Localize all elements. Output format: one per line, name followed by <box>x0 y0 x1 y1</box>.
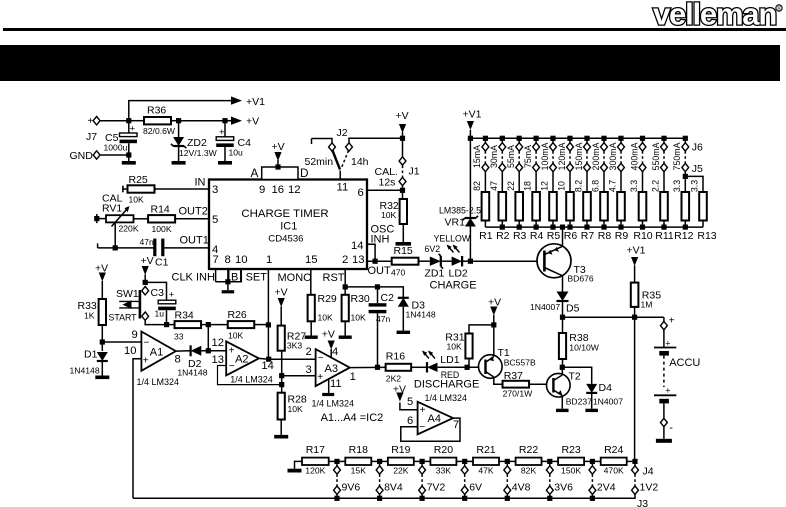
svg-text:D4: D4 <box>599 382 613 394</box>
wire J3 bus <box>133 494 635 498</box>
svg-text:9: 9 <box>132 329 138 341</box>
svg-text:+: + <box>130 124 136 135</box>
svg-text:CLK INH: CLK INH <box>172 272 215 284</box>
IC1 top notch box <box>262 167 298 180</box>
svg-text:47n: 47n <box>140 237 155 247</box>
connector J1 lower pin <box>399 177 406 185</box>
svg-text:R1: R1 <box>479 230 493 242</box>
svg-text:CHARGE TIMER: CHARGE TIMER <box>241 208 328 220</box>
svg-text:11: 11 <box>337 182 349 194</box>
svg-text:SW1: SW1 <box>116 288 139 300</box>
node RV1 left terminal <box>94 216 99 221</box>
wire OUT1 row left stub <box>98 247 116 249</box>
node D2/A2 junction <box>206 348 211 353</box>
resistor R34 <box>167 324 175 326</box>
battery end bar <box>663 427 665 439</box>
wire pin10 down <box>240 269 242 282</box>
resistor R6 column <box>567 136 572 141</box>
svg-text:7: 7 <box>213 254 219 266</box>
svg-text:MONO: MONO <box>278 272 313 284</box>
svg-text:150mA: 150mA <box>574 142 584 170</box>
svg-text:1/4 LM324: 1/4 LM324 <box>137 377 180 387</box>
wire to minus pin <box>663 403 665 418</box>
capacitor C1 <box>115 247 154 249</box>
node ZD2 top junction <box>176 118 181 123</box>
svg-text:R15: R15 <box>394 245 413 257</box>
svg-text:270/1W: 270/1W <box>503 389 534 399</box>
node T3 collector tap <box>560 225 565 230</box>
svg-text:13: 13 <box>352 254 365 266</box>
wire pin13 OUT row <box>367 260 392 262</box>
diode D1 <box>97 352 108 361</box>
svg-text:550mA: 550mA <box>651 142 661 170</box>
resistor R3 column <box>517 136 522 141</box>
svg-text:R20: R20 <box>434 444 453 456</box>
svg-text:−: − <box>318 353 324 364</box>
svg-text:CHARGE: CHARGE <box>430 280 477 292</box>
svg-text:5: 5 <box>407 396 413 408</box>
svg-text:+: + <box>88 116 94 127</box>
svg-text:J7: J7 <box>86 131 97 143</box>
svg-text:1/4 LM324: 1/4 LM324 <box>425 393 468 403</box>
svg-text:10K: 10K <box>228 331 244 341</box>
wire A3 pin11 to ground <box>328 378 330 393</box>
svg-text:IC1: IC1 <box>280 221 297 233</box>
svg-text:15K: 15K <box>351 466 367 476</box>
svg-text:1N4007: 1N4007 <box>530 302 560 312</box>
svg-text:R37: R37 <box>504 370 523 382</box>
wire pin15 down to R29 <box>310 269 312 295</box>
switch J2 dashed 14h <box>341 151 349 170</box>
svg-text:1K: 1K <box>84 311 95 321</box>
resistor R31 <box>465 334 472 359</box>
svg-text:D1: D1 <box>84 349 98 361</box>
node C2/A3 output junction <box>375 365 380 370</box>
wire pin3 row to A3 <box>282 375 316 377</box>
svg-text:2.2: 2.2 <box>651 180 661 192</box>
resistor R29 <box>308 295 315 322</box>
node C4 top junction <box>222 118 227 123</box>
wire D4 to ground <box>591 393 593 409</box>
svg-text:−: − <box>419 422 425 433</box>
svg-text:+: + <box>229 345 235 356</box>
svg-text:+V: +V <box>275 287 288 299</box>
svg-text:A2: A2 <box>235 354 248 366</box>
svg-text:R17: R17 <box>306 444 325 456</box>
svg-text:3.3: 3.3 <box>629 180 639 192</box>
header thin rule <box>3 28 786 31</box>
node wiper/OUT1 junction <box>113 245 118 250</box>
node pin6/R32 junction <box>400 188 405 193</box>
wire D2 to A2 pin12 <box>201 350 226 352</box>
wire R27 down across pin2 row <box>281 351 283 393</box>
wire ZD2 node to C4 node <box>179 120 225 122</box>
wire R31 to base node <box>468 359 470 368</box>
node C3/R34 junction <box>164 322 169 327</box>
svg-text:150K: 150K <box>561 466 581 476</box>
svg-text:R7: R7 <box>581 230 595 242</box>
wire D1 to ground <box>101 361 103 376</box>
svg-text:OUT2: OUT2 <box>179 206 208 218</box>
svg-text:−: − <box>144 337 150 348</box>
node D5/R38/battery junction <box>560 315 565 320</box>
resistor R2 column <box>500 136 505 141</box>
supply +V over J1 <box>402 132 404 138</box>
svg-text:1N4148: 1N4148 <box>406 310 436 320</box>
svg-text:82: 82 <box>472 181 482 191</box>
svg-text:+: + <box>665 386 670 396</box>
svg-text:12s: 12s <box>379 177 396 189</box>
wire R32 to ground <box>402 224 404 242</box>
wire A4 feedback loop <box>401 418 460 441</box>
svg-text:33K: 33K <box>436 466 452 476</box>
svg-text:J6: J6 <box>692 142 703 154</box>
svg-text:8: 8 <box>225 254 231 266</box>
resistor R36 <box>129 120 144 122</box>
resistor R20 <box>430 458 456 465</box>
wire junction to R31 <box>469 325 494 334</box>
resistor R16 <box>386 364 412 371</box>
svg-text:200mA: 200mA <box>591 142 601 170</box>
capacitor C3 <box>158 300 176 304</box>
svg-text:14h: 14h <box>351 156 369 168</box>
svg-text:R13: R13 <box>697 230 716 242</box>
svg-text:CD4536: CD4536 <box>268 233 303 244</box>
svg-text:OUT: OUT <box>368 265 392 277</box>
svg-text:1N4007: 1N4007 <box>593 397 623 407</box>
svg-text:22K: 22K <box>393 466 409 476</box>
header black banner <box>0 45 780 81</box>
svg-text:R30: R30 <box>351 293 370 305</box>
capacitor C5 <box>128 121 130 133</box>
svg-text:2: 2 <box>306 346 312 358</box>
connector J1 upper pin <box>402 138 404 157</box>
svg-text:BC557B: BC557B <box>504 358 536 368</box>
svg-text:2: 2 <box>342 254 348 266</box>
svg-text:ACCU: ACCU <box>669 357 700 369</box>
wire A2 output <box>259 357 269 360</box>
svg-text:10K: 10K <box>288 404 304 414</box>
op-amp A4 <box>418 402 454 435</box>
wire to C3 top <box>145 282 166 300</box>
node R33/D1/A1 junction <box>100 339 105 344</box>
resistor R12 column <box>683 136 688 141</box>
svg-text:C3: C3 <box>151 287 165 299</box>
resistor R38 <box>562 317 564 333</box>
svg-text:15mA: 15mA <box>472 145 482 168</box>
ground under D1 <box>95 376 109 380</box>
node +V/R31 junction <box>491 322 496 327</box>
wire R34 node down to D2 node <box>207 325 209 351</box>
resistor R33 <box>99 299 106 325</box>
wire R15 to ZD1 <box>419 260 430 262</box>
svg-text:R16: R16 <box>386 351 405 363</box>
svg-text:J4: J4 <box>643 466 654 478</box>
LED LD1 <box>427 363 438 372</box>
wire A1 pin10 feedback from J3 bus <box>133 359 141 499</box>
zener VR1 LM385-2.5 <box>469 138 471 218</box>
svg-text:YELLOW: YELLOW <box>434 234 471 244</box>
svg-text:A: A <box>251 166 259 180</box>
svg-text:3: 3 <box>212 184 218 196</box>
svg-text:4V8: 4V8 <box>512 482 531 494</box>
resistor R15 <box>392 258 419 265</box>
svg-text:9V6: 9V6 <box>342 482 361 494</box>
svg-text:R6: R6 <box>564 230 578 242</box>
supply arrow +V <box>231 117 242 125</box>
svg-text:B: B <box>231 272 238 284</box>
svg-text:12: 12 <box>288 184 301 196</box>
wire down right rail to J4 <box>634 317 636 461</box>
resistor R26 <box>228 321 255 328</box>
capacitor C2 <box>377 287 379 303</box>
tap 6V <box>462 459 467 464</box>
svg-text:R2: R2 <box>496 230 510 242</box>
wire A1 output to D2 <box>176 350 191 352</box>
ground left of R17 <box>295 461 303 468</box>
wire T2 emitter to ground <box>561 396 563 409</box>
svg-text:55mA: 55mA <box>506 145 516 168</box>
ground under R32 <box>396 242 412 246</box>
svg-text:3.3: 3.3 <box>690 180 700 192</box>
tap 2V4 <box>590 459 595 464</box>
wire T2 collector to R38 node <box>561 367 563 375</box>
tap 4V8 <box>505 459 510 464</box>
svg-text:4: 4 <box>332 346 338 358</box>
svg-text:10K: 10K <box>129 195 145 205</box>
resistor R18 <box>345 458 371 465</box>
wire A3 output to R16 <box>350 366 386 368</box>
node notch supply junction <box>275 164 280 169</box>
resistor R5 column <box>550 136 555 141</box>
svg-text:1N4148: 1N4148 <box>177 368 207 378</box>
transistor T1 BC557B <box>479 355 503 379</box>
svg-text:8.2: 8.2 <box>574 180 584 192</box>
svg-text:D5: D5 <box>566 303 580 315</box>
wire RV1 wiper down to OUT1 row <box>114 222 116 248</box>
resistor R13 branch <box>683 174 688 179</box>
svg-text:-: - <box>669 422 673 434</box>
svg-text:+V: +V <box>246 116 259 128</box>
svg-text:J2: J2 <box>337 127 348 139</box>
wire D5 to battery node <box>562 301 564 317</box>
svg-text:47: 47 <box>489 181 499 191</box>
node VR1/T3 base junction <box>468 259 473 264</box>
wire R34 to R26 <box>201 324 228 326</box>
svg-text:52min: 52min <box>305 156 334 168</box>
svg-text:11: 11 <box>330 378 342 390</box>
resistor R17 <box>302 458 329 465</box>
wire R37 to T2 base <box>529 383 553 385</box>
svg-text:+V: +V <box>396 110 409 122</box>
svg-text:R29: R29 <box>318 293 337 305</box>
svg-text:+: + <box>169 290 175 301</box>
svg-text:3.3: 3.3 <box>672 180 682 192</box>
svg-text:8: 8 <box>175 354 181 366</box>
svg-text:T2: T2 <box>569 371 581 383</box>
node ACCU minus pin <box>660 418 667 426</box>
resistor R21 <box>473 458 499 465</box>
resistor R8 column <box>601 136 606 141</box>
node pin8 junction <box>225 279 230 284</box>
svg-text:J5: J5 <box>692 163 703 175</box>
transistor T2 BD237 <box>547 373 571 397</box>
wire up to +V1 rail <box>129 101 232 121</box>
svg-text:470: 470 <box>391 268 406 278</box>
node R38/T2/D4 junction <box>560 365 565 370</box>
svg-text:3: 3 <box>306 364 312 376</box>
wire pin14 loop to OUT row <box>367 244 375 261</box>
ground under C4 <box>218 161 232 165</box>
svg-text:A1: A1 <box>150 347 163 359</box>
wire battery row <box>563 316 664 318</box>
diode D3 <box>398 298 409 307</box>
svg-text:3K3: 3K3 <box>287 341 303 351</box>
svg-text:C2: C2 <box>381 292 395 304</box>
svg-text:33: 33 <box>174 332 184 342</box>
resistor R24 <box>601 458 627 465</box>
ground under T2 <box>556 409 569 412</box>
connector J1 dashed link <box>402 166 404 178</box>
svg-text:®: ® <box>777 5 782 12</box>
svg-text:47K: 47K <box>478 466 494 476</box>
wire junction to D4 <box>562 367 591 384</box>
svg-text:BD237: BD237 <box>566 397 592 407</box>
svg-text:1u: 1u <box>155 309 165 319</box>
svg-text:IN: IN <box>195 177 206 189</box>
resistor R32 <box>402 190 404 199</box>
svg-text:1: 1 <box>266 254 272 266</box>
svg-text:+V1: +V1 <box>246 96 265 108</box>
svg-text:10K: 10K <box>351 313 367 323</box>
wire pin7 down <box>215 269 217 282</box>
wire T1 collector to R37 <box>494 377 503 384</box>
svg-text:30mA: 30mA <box>489 145 499 168</box>
node GND wire junction <box>126 152 131 157</box>
svg-text:10: 10 <box>124 345 136 357</box>
svg-text:GND: GND <box>70 150 94 162</box>
resistor R35 <box>631 283 639 307</box>
svg-text:LM385-2.5: LM385-2.5 <box>439 206 481 216</box>
node R27/pin3 junction <box>279 373 284 378</box>
svg-text:+V: +V <box>272 141 285 153</box>
svg-text:R4: R4 <box>530 230 544 242</box>
svg-text:OUT1: OUT1 <box>180 235 209 247</box>
svg-text:velleman: velleman <box>653 0 776 32</box>
wire pin2 RST down <box>344 269 346 295</box>
wire MONO pin1 down <box>267 269 269 359</box>
label B box <box>229 270 242 282</box>
svg-text:+: + <box>420 405 426 416</box>
node feedback junction <box>279 382 284 387</box>
svg-text:1V2: 1V2 <box>640 482 659 494</box>
svg-text:12: 12 <box>540 181 550 191</box>
resistor R9 column <box>618 136 623 141</box>
node R35 bottom junction <box>632 315 637 320</box>
wire joining pins 7 8 10 <box>216 281 241 283</box>
wire GND to C5 column <box>101 154 129 156</box>
svg-text:D: D <box>300 166 309 180</box>
svg-text:2V4: 2V4 <box>597 482 616 494</box>
wire C4 to ground <box>224 147 226 161</box>
svg-text:12V/1.3W: 12V/1.3W <box>179 148 218 158</box>
svg-text:6: 6 <box>407 415 413 427</box>
wire to first cell <box>663 330 665 348</box>
supply +V over IC1 <box>277 160 279 167</box>
svg-text:A1...A4 =IC2: A1...A4 =IC2 <box>321 412 384 424</box>
wire J7+ to C5 node <box>101 120 129 122</box>
ground under D4 <box>585 409 598 412</box>
wire R33 junction to A1 pin9 <box>102 341 141 343</box>
switch SW1 start button <box>142 287 149 295</box>
wire A2 feedback pin13 <box>218 366 282 385</box>
svg-text:DISCHARGE: DISCHARGE <box>414 379 479 391</box>
svg-text:R9: R9 <box>615 230 629 242</box>
svg-text:R26: R26 <box>228 309 247 321</box>
svg-text:J1: J1 <box>409 166 420 178</box>
ground under ZD2 <box>172 161 186 165</box>
resistor R22 <box>516 458 542 465</box>
svg-text:R11: R11 <box>655 230 674 242</box>
wire J2 common to IC pin11 <box>339 171 341 180</box>
svg-text:R36: R36 <box>147 105 166 117</box>
svg-text:14: 14 <box>351 240 364 252</box>
svg-text:9: 9 <box>259 184 265 196</box>
svg-text:RST: RST <box>323 272 345 284</box>
capacitor C4 <box>224 121 226 137</box>
tap 3V6 <box>547 459 552 464</box>
svg-text:R8: R8 <box>598 230 612 242</box>
ground under C5 <box>122 161 136 165</box>
wire A2 output to A3 pin2 <box>269 358 316 360</box>
node R26/MONO junction <box>266 322 271 327</box>
resistor R23 <box>558 458 584 465</box>
svg-text:100K: 100K <box>152 224 172 234</box>
tap 7V2 <box>420 459 425 464</box>
svg-text:R5: R5 <box>547 230 561 242</box>
wire R38 to junction <box>562 359 564 367</box>
svg-text:R24: R24 <box>604 444 623 456</box>
ground under R29 <box>305 336 318 339</box>
svg-text:400mA: 400mA <box>629 142 639 170</box>
battery dashed middle <box>663 356 665 387</box>
svg-text:1: 1 <box>350 371 356 383</box>
svg-text:12: 12 <box>212 337 224 349</box>
wire C3 bottom to R34 row <box>166 310 168 324</box>
svg-text:1/4 LM324: 1/4 LM324 <box>230 375 273 385</box>
tap 9V6 <box>334 459 339 464</box>
svg-text:10K: 10K <box>318 313 334 323</box>
op-amp A2 <box>226 341 259 375</box>
svg-text:82/0.6W: 82/0.6W <box>143 126 176 136</box>
svg-text:C1: C1 <box>155 257 169 269</box>
svg-text:100mA: 100mA <box>540 142 550 170</box>
svg-text:10: 10 <box>235 254 248 266</box>
bottom bus of resistor bank <box>485 226 703 228</box>
wire to T3 base <box>470 260 544 262</box>
resistor R11 column <box>661 136 666 141</box>
svg-text:+V: +V <box>141 255 154 267</box>
svg-text:82K: 82K <box>521 466 537 476</box>
svg-text:470K: 470K <box>604 466 624 476</box>
wire R33 to D1 junction <box>101 325 103 351</box>
wire ZD1 to LD2 <box>441 260 451 262</box>
ground under R28 <box>274 435 288 439</box>
svg-text:13: 13 <box>212 354 224 366</box>
svg-text:R12: R12 <box>674 230 693 242</box>
node C5/R36 junction <box>126 118 131 123</box>
svg-text:22: 22 <box>506 181 516 191</box>
